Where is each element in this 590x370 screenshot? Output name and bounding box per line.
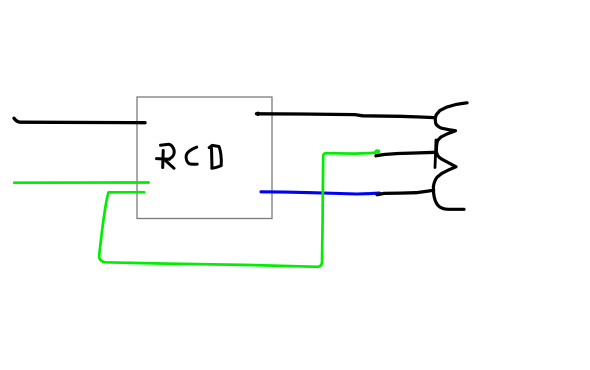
label RCD (hand-drawn letters) <box>157 144 222 168</box>
junction dot at top wire start <box>256 112 260 116</box>
wire: neutral (blue, box to load) <box>261 192 379 194</box>
load cable squiggle (flex/cord symbol on right) <box>433 103 467 210</box>
letter D <box>210 148 214 168</box>
wire: middle line out (black, green to load) <box>376 152 436 156</box>
wire: left supply line (black, in) <box>14 118 145 123</box>
letter C <box>186 147 197 164</box>
wire: green earth loop (exits box bottom-left, loops under, up to middle-right) <box>99 151 379 267</box>
squiggle middle tick <box>435 140 436 168</box>
RCD enclosure box <box>137 97 272 219</box>
wire: bottom line out (black, blue to load) <box>377 190 434 195</box>
wire: top line out (black, box to load) <box>257 114 435 118</box>
letter R <box>161 151 165 168</box>
wire: left earth line (green, in) <box>14 181 148 184</box>
